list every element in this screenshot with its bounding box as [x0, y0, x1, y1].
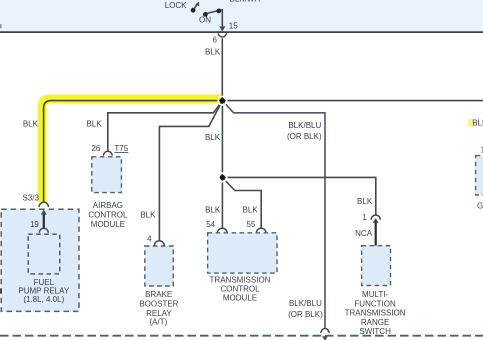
- wire: junction J2 to TCM pin 54: [221, 177, 223, 228]
- bottom component boundary (dashed): [0, 335, 483, 337]
- label BLK (right off-page wire), with yellow fragment: [468, 119, 474, 127]
- svg-text:(1.8L, 4.0L): (1.8L, 4.0L): [23, 295, 64, 304]
- svg-text:LOCK: LOCK: [165, 1, 187, 10]
- svg-text:54: 54: [206, 220, 215, 229]
- svg-text:RANGE: RANGE: [361, 318, 389, 327]
- svg-text:FUEL: FUEL: [34, 278, 55, 287]
- airbag control module box: [92, 157, 122, 193]
- wire: junction J2 to TCM pin 55: [222, 177, 261, 228]
- svg-text:CONTROL: CONTROL: [220, 284, 260, 293]
- ignition switch lever with arrowhead: [194, 5, 196, 8]
- svg-text:6: 6: [212, 35, 217, 44]
- connector arc S3/3 (female): [39, 202, 48, 207]
- transmission control module box: [208, 233, 277, 273]
- wire: junction J1 to airbag control module pin 26: [108, 101, 223, 152]
- svg-text:BLK/WH: BLK/WH: [230, 0, 261, 3]
- wire: junction J2 to multi-function transmission range switch pin 1: [222, 177, 375, 215]
- svg-text:MODULE: MODULE: [91, 220, 125, 229]
- svg-text:TRANSMISSION: TRANSMISSION: [345, 309, 406, 318]
- ignition switch ON position dot: [203, 12, 208, 17]
- svg-text:CONTROL: CONTROL: [88, 210, 128, 219]
- connector arc pin 55: [256, 228, 266, 233]
- junction J1: [218, 96, 227, 105]
- connector female at pin 6: [218, 34, 227, 37]
- svg-text:15: 15: [229, 22, 238, 31]
- multi-function transmission range switch box: [362, 246, 391, 286]
- left edge text fragment: [0, 289, 2, 294]
- svg-text:BLK: BLK: [472, 118, 483, 127]
- fuel pump relay inner box: [28, 234, 60, 274]
- svg-text:BLK: BLK: [23, 120, 39, 129]
- wire: junction J1 to fuel pump relay connector S3/3: [44, 101, 223, 203]
- wire: junction J1 right to off-page (BLK): [222, 100, 483, 102]
- svg-text:BLK: BLK: [140, 210, 156, 219]
- connector arc pin 19: [39, 228, 48, 233]
- svg-text:SWITCH: SWITCH: [359, 327, 391, 336]
- ignition switch common contact dot: [216, 9, 221, 14]
- fuel pump relay outer box: [1, 209, 79, 311]
- svg-text:BRAKE: BRAKE: [145, 290, 172, 299]
- svg-text:BLK: BLK: [86, 120, 102, 129]
- svg-text:NCA: NCA: [355, 229, 373, 238]
- svg-text:(OR BLK): (OR BLK): [287, 132, 322, 141]
- svg-text:BLK: BLK: [243, 206, 259, 215]
- wire: ignition switch internal, ON contact to output pin 15: [205, 10, 222, 26]
- yellow highlight on fuel pump relay wire: [42, 99, 222, 202]
- ignition switch LOCK position dot: [191, 8, 196, 13]
- svg-text:S3/3: S3/3: [22, 193, 39, 202]
- connector arrow S3/3 (male, up): [41, 209, 47, 214]
- svg-text:BLK: BLK: [205, 133, 221, 142]
- connector arc pin 26: [103, 151, 112, 155]
- svg-text:MULTI-: MULTI-: [362, 290, 388, 299]
- svg-text:AIRBAG: AIRBAG: [93, 201, 123, 210]
- svg-text:26: 26: [91, 144, 100, 153]
- arrow down at pin 15: [219, 26, 225, 32]
- svg-text:19: 19: [30, 220, 39, 229]
- svg-text:BLK: BLK: [205, 47, 221, 56]
- svg-text:BOOSTER: BOOSTER: [139, 300, 178, 309]
- right edge component box (cut off): [476, 156, 483, 195]
- svg-text:4: 4: [147, 235, 152, 244]
- svg-text:FUNCTION: FUNCTION: [354, 299, 396, 308]
- junction J2: [218, 173, 227, 182]
- connector female at bottom (opening down): [320, 329, 330, 333]
- connector arc pin 54: [217, 228, 227, 233]
- wire: junction J1 to brake booster relay pin 4: [159, 101, 222, 241]
- svg-text:T75: T75: [114, 144, 128, 153]
- svg-text:BLK/BLU: BLK/BLU: [289, 299, 322, 308]
- connector arrow NCA (male, up): [373, 218, 379, 223]
- svg-text:55: 55: [247, 220, 256, 229]
- svg-text:BLK: BLK: [357, 197, 373, 206]
- svg-text:G10: G10: [477, 202, 483, 211]
- connector male arrow below boundary (cut off): [322, 336, 328, 340]
- svg-text:(A/T): (A/T): [150, 318, 168, 327]
- wire: NCA connector to multi-function switch: [375, 222, 377, 246]
- wire: junction J1 to bottom connector BLK/BLU (OR BLK): [222, 101, 325, 329]
- svg-text:BLK: BLK: [205, 206, 221, 215]
- connector arc pin 4: [154, 241, 164, 246]
- svg-text:RELAY: RELAY: [146, 309, 172, 318]
- svg-text:TRANSMISSION: TRANSMISSION: [210, 276, 271, 285]
- svg-text:BLK/BLU: BLK/BLU: [288, 121, 321, 130]
- svg-text:MODULE: MODULE: [223, 293, 257, 302]
- wire: pin 6 down to junction J1: [221, 38, 223, 98]
- svg-text:ON: ON: [199, 16, 211, 25]
- left edge fragment of box border: [0, 24, 2, 28]
- svg-text:1: 1: [362, 213, 367, 222]
- ignition switch component box (top, cut off): [0, 0, 483, 32]
- connector arc NCA (female): [371, 215, 380, 220]
- brake booster relay box: [145, 246, 174, 286]
- wire: junction J1 down to junction J2: [221, 101, 223, 178]
- svg-text:(OR BLK): (OR BLK): [288, 310, 323, 319]
